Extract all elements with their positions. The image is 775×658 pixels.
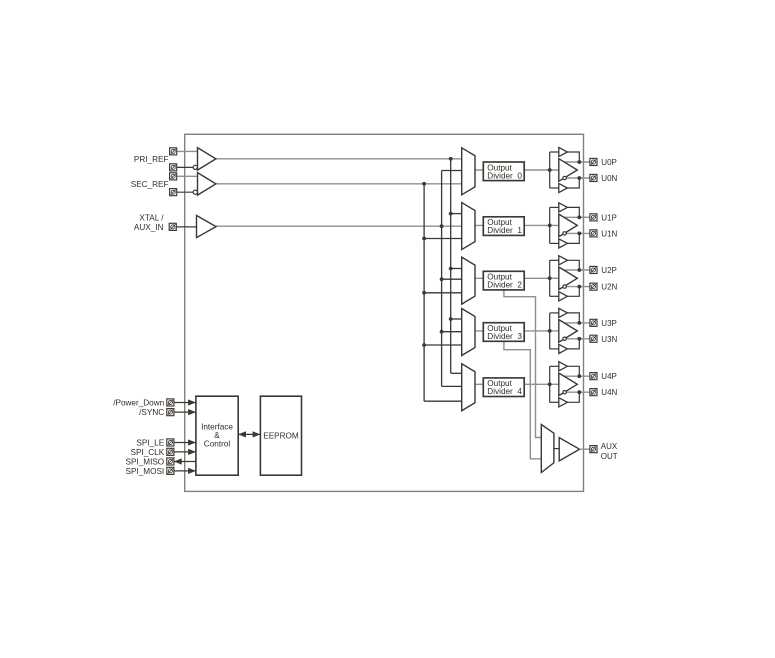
wire SPI_LE to Interface & Control <box>174 442 196 444</box>
wire U4N output line <box>566 391 590 393</box>
wire U0N output line <box>566 177 590 179</box>
bus PRI stub to mux at y=213.6 <box>451 213 463 215</box>
block Output Divider 1 <box>483 217 524 236</box>
arrowhead SPI_LE into block <box>188 439 196 445</box>
wire /Power_Down to Interface & Control <box>174 402 196 404</box>
pin U3P <box>590 319 597 326</box>
input mux 0 (3:1) <box>462 148 475 195</box>
output driver U1 upper helper buffer <box>559 203 568 212</box>
bus XTAL top stub to mux0 input B <box>442 170 463 172</box>
svg-text:U4P: U4P <box>601 372 617 381</box>
pin /Power_Down <box>167 399 174 406</box>
wire U0 buffer input branch vertical <box>549 152 551 188</box>
wire PRI_REF+ pin to buffer <box>177 150 198 152</box>
wire SPI_CLK to Interface & Control <box>174 451 196 453</box>
chip outer boundary box <box>185 134 584 491</box>
wire U4 buffer input branch vertical <box>549 366 551 402</box>
wire U4 top feedback <box>567 366 579 376</box>
wire U2 buffer input branch vertical <box>549 260 551 296</box>
svg-text:U2P: U2P <box>601 266 617 275</box>
junction dots U3 <box>548 329 552 333</box>
output driver U4 main differential buffer <box>559 373 578 396</box>
pin /SYNC <box>167 409 174 416</box>
svg-text:AUX_IN: AUX_IN <box>134 223 164 232</box>
pin U4N <box>590 389 597 396</box>
svg-text:/Power_Down: /Power_Down <box>113 399 164 408</box>
wire U1N output line <box>566 232 590 234</box>
wire U2 bottom feedback <box>567 287 579 297</box>
wire tap Output Divider 2 to AUX mux input A <box>504 289 542 438</box>
output driver U4 lower helper buffer <box>559 398 568 407</box>
wire U1 buffer input branch vertical <box>549 207 551 243</box>
inversion bubble U4N <box>563 391 566 394</box>
input mux 1 (3:1) <box>462 203 475 250</box>
input buffer PRI (differential) <box>198 148 216 171</box>
wire U2N output line <box>566 286 590 288</box>
wire U3 top feedback <box>567 313 579 323</box>
block Output Divider 0 <box>483 162 524 181</box>
bus SEC vertical <box>423 184 425 401</box>
wire SEC buffer output to mux0 input C <box>216 183 463 185</box>
svg-text:SPI_CLK: SPI_CLK <box>131 448 165 457</box>
wire SEC_REF+ pin to buffer <box>177 175 198 177</box>
buffer AUX output <box>559 438 579 461</box>
block Interface & Control <box>196 396 238 475</box>
inversion bubble SEC- input <box>193 190 197 194</box>
wire U3 bottom feedback <box>567 339 579 349</box>
block EEPROM <box>260 396 301 475</box>
svg-text:Divider 1: Divider 1 <box>487 226 522 235</box>
output driver U2 main differential buffer <box>559 267 578 290</box>
channel U3 line mux3 output through divider to output buffer <box>474 330 559 332</box>
svg-text:SPI_LE: SPI_LE <box>136 439 164 448</box>
inversion bubble PRI- input <box>193 165 197 169</box>
svg-text:Control: Control <box>204 439 231 448</box>
block Output Divider 2 <box>483 271 524 290</box>
bus PRI stub to mux at y=268.5 <box>451 268 463 270</box>
bus SEC stub to mux at y=238.5 <box>424 238 463 240</box>
arrowhead toward EEPROM <box>253 431 261 437</box>
svg-text:Divider 0: Divider 0 <box>487 171 522 180</box>
inversion bubble U2N <box>563 285 566 288</box>
inversion bubble U1N <box>563 232 566 235</box>
pin U4P <box>590 373 597 380</box>
wire AUX mux to buffer <box>554 448 559 450</box>
svg-text:U3N: U3N <box>601 335 617 344</box>
svg-text:Divider 4: Divider 4 <box>487 387 522 396</box>
arrowhead /SYNC into block <box>188 409 196 415</box>
output driver U2 upper helper buffer <box>559 256 568 265</box>
pin U3N <box>590 335 597 342</box>
wire AUX buffer to pin <box>580 448 591 450</box>
wire U1 top feedback <box>567 207 579 217</box>
junction dots U2 <box>548 276 552 280</box>
wire PRI_REF- pin to bubble <box>177 166 194 168</box>
wire U0 bottom feedback <box>567 178 579 188</box>
svg-text:XTAL /: XTAL / <box>139 213 164 222</box>
bus SEC stub to mux at y=345.0 <box>424 344 463 346</box>
output driver U0 lower helper buffer <box>559 183 568 192</box>
output driver U1 main differential buffer <box>559 214 578 237</box>
svg-text:OUT: OUT <box>601 452 618 461</box>
pin SPI_LE <box>167 439 174 446</box>
wire U1 bottom feedback <box>567 233 579 243</box>
pin U2N <box>590 283 597 290</box>
input mux 2 (3:1) <box>462 257 475 304</box>
input mux 3 (3:1) <box>462 309 475 356</box>
svg-text:/SYNC: /SYNC <box>139 408 164 417</box>
wire U3P output line <box>564 322 590 324</box>
wire U0P output line <box>564 161 590 163</box>
pin U2P <box>590 266 597 273</box>
bus XTAL stub to mux at y=331.7 <box>442 331 463 333</box>
channel U0 line mux0 output through divider to output buffer <box>474 169 559 171</box>
junction dots U1 <box>548 224 552 228</box>
output driver U4 upper helper buffer <box>559 362 568 371</box>
input mux 4 (3:1) <box>462 364 475 411</box>
arrowhead /Power_Down into block <box>188 399 196 405</box>
bus XTAL stub to mux at y=386.4 <box>442 385 463 387</box>
bus PRI vertical <box>450 159 452 373</box>
mux AUX (2:1) <box>541 425 554 473</box>
channel U4 line mux4 output through divider to output buffer <box>474 383 559 385</box>
pin SEC_REF+ <box>170 173 177 180</box>
pin SEC_REF- <box>170 189 177 196</box>
svg-text:AUX: AUX <box>601 442 618 451</box>
wire PRI buffer output to mux0 input A <box>216 158 463 160</box>
inversion bubble U0N <box>563 176 566 179</box>
junction dots on buses <box>449 157 453 161</box>
wire U4P output line <box>564 375 590 377</box>
svg-text:U0P: U0P <box>601 158 617 167</box>
wire SPI_MOSI to Interface & Control <box>174 470 196 472</box>
output driver U1 lower helper buffer <box>559 239 568 248</box>
bus SEC stub to mux at y=401.2 <box>424 400 463 402</box>
arrowhead SPI_MOSI into block <box>188 468 196 474</box>
output driver U2 lower helper buffer <box>559 292 568 301</box>
wire U4 bottom feedback <box>567 392 579 402</box>
wire XTAL buffer output to mux1 input B <box>216 225 463 227</box>
output driver U3 main differential buffer <box>559 320 578 343</box>
pin U0N <box>590 174 597 181</box>
svg-text:EEPROM: EEPROM <box>263 432 299 441</box>
svg-text:U2N: U2N <box>601 283 617 292</box>
bus PRI stub to mux at y=373.3 <box>451 372 463 374</box>
pin U1P <box>590 214 597 221</box>
svg-text:U1N: U1N <box>601 229 617 238</box>
pin U1N <box>590 230 597 237</box>
svg-text:Divider 3: Divider 3 <box>487 332 522 341</box>
wire tap Output Divider 3 to AUX mux input B <box>504 341 542 459</box>
wire bidirectional Interface-EEPROM <box>238 433 260 435</box>
pin SPI_MOSI <box>167 467 174 474</box>
bus SEC stub to mux at y=292.8 <box>424 292 463 294</box>
input buffer XTAL/AUX_IN <box>197 216 217 238</box>
wire U3N output line <box>566 338 590 340</box>
bus XTAL stub to mux at y=279.2 <box>442 278 463 280</box>
pin PRI_REF+ <box>170 148 177 155</box>
wire U3 buffer input branch vertical <box>549 313 551 349</box>
channel U1 line mux1 output through divider to output buffer <box>474 224 559 226</box>
svg-text:U1P: U1P <box>601 213 617 222</box>
svg-text:SPI_MISO: SPI_MISO <box>126 458 165 467</box>
wire U0 top feedback <box>567 152 579 162</box>
svg-text:Divider 2: Divider 2 <box>487 281 522 290</box>
wire U2 top feedback <box>567 260 579 270</box>
wire SEC_REF- pin to bubble <box>177 191 194 193</box>
block Output Divider 4 <box>483 378 524 397</box>
svg-text:SPI_MOSI: SPI_MOSI <box>126 467 165 476</box>
pin SPI_CLK <box>167 448 174 455</box>
input buffer SEC (differential) <box>198 173 216 196</box>
output driver U0 upper helper buffer <box>559 147 568 156</box>
channel U2 line mux2 output through divider to output buffer <box>474 277 559 279</box>
pin PRI_REF- <box>170 164 177 171</box>
svg-text:U0N: U0N <box>601 174 617 183</box>
output driver U0 main differential buffer <box>559 159 578 182</box>
junction dots U0 <box>548 168 552 172</box>
arrowhead toward Interface & Control <box>238 431 246 437</box>
bus XTAL vertical <box>441 171 443 387</box>
arrowhead SPI_MISO toward pin <box>174 458 182 464</box>
arrowhead SPI_CLK into block <box>188 449 196 455</box>
output driver U3 lower helper buffer <box>559 344 568 353</box>
wire U1P output line <box>564 216 590 218</box>
block Output Divider 3 <box>483 323 524 342</box>
inversion bubble U3N <box>563 337 566 340</box>
wire U2P output line <box>564 269 590 271</box>
junction dots U4 <box>548 382 552 386</box>
pin AUX OUT <box>590 446 597 453</box>
wire /SYNC to Interface & Control <box>174 411 196 413</box>
svg-text:U3P: U3P <box>601 319 617 328</box>
pin SPI_MISO <box>167 458 174 465</box>
svg-text:U4N: U4N <box>601 388 617 397</box>
svg-text:PRI_REF: PRI_REF <box>134 155 169 164</box>
pin U0P <box>590 158 597 165</box>
pin XTAL/AUX_IN <box>169 223 176 230</box>
svg-text:SEC_REF: SEC_REF <box>131 180 169 189</box>
wire XTAL/AUX_IN pin to buffer <box>176 226 196 228</box>
bus PRI stub to mux at y=319.0 <box>451 318 463 320</box>
wire SPI_MISO to Interface & Control <box>174 461 196 463</box>
output driver U3 upper helper buffer <box>559 308 568 317</box>
